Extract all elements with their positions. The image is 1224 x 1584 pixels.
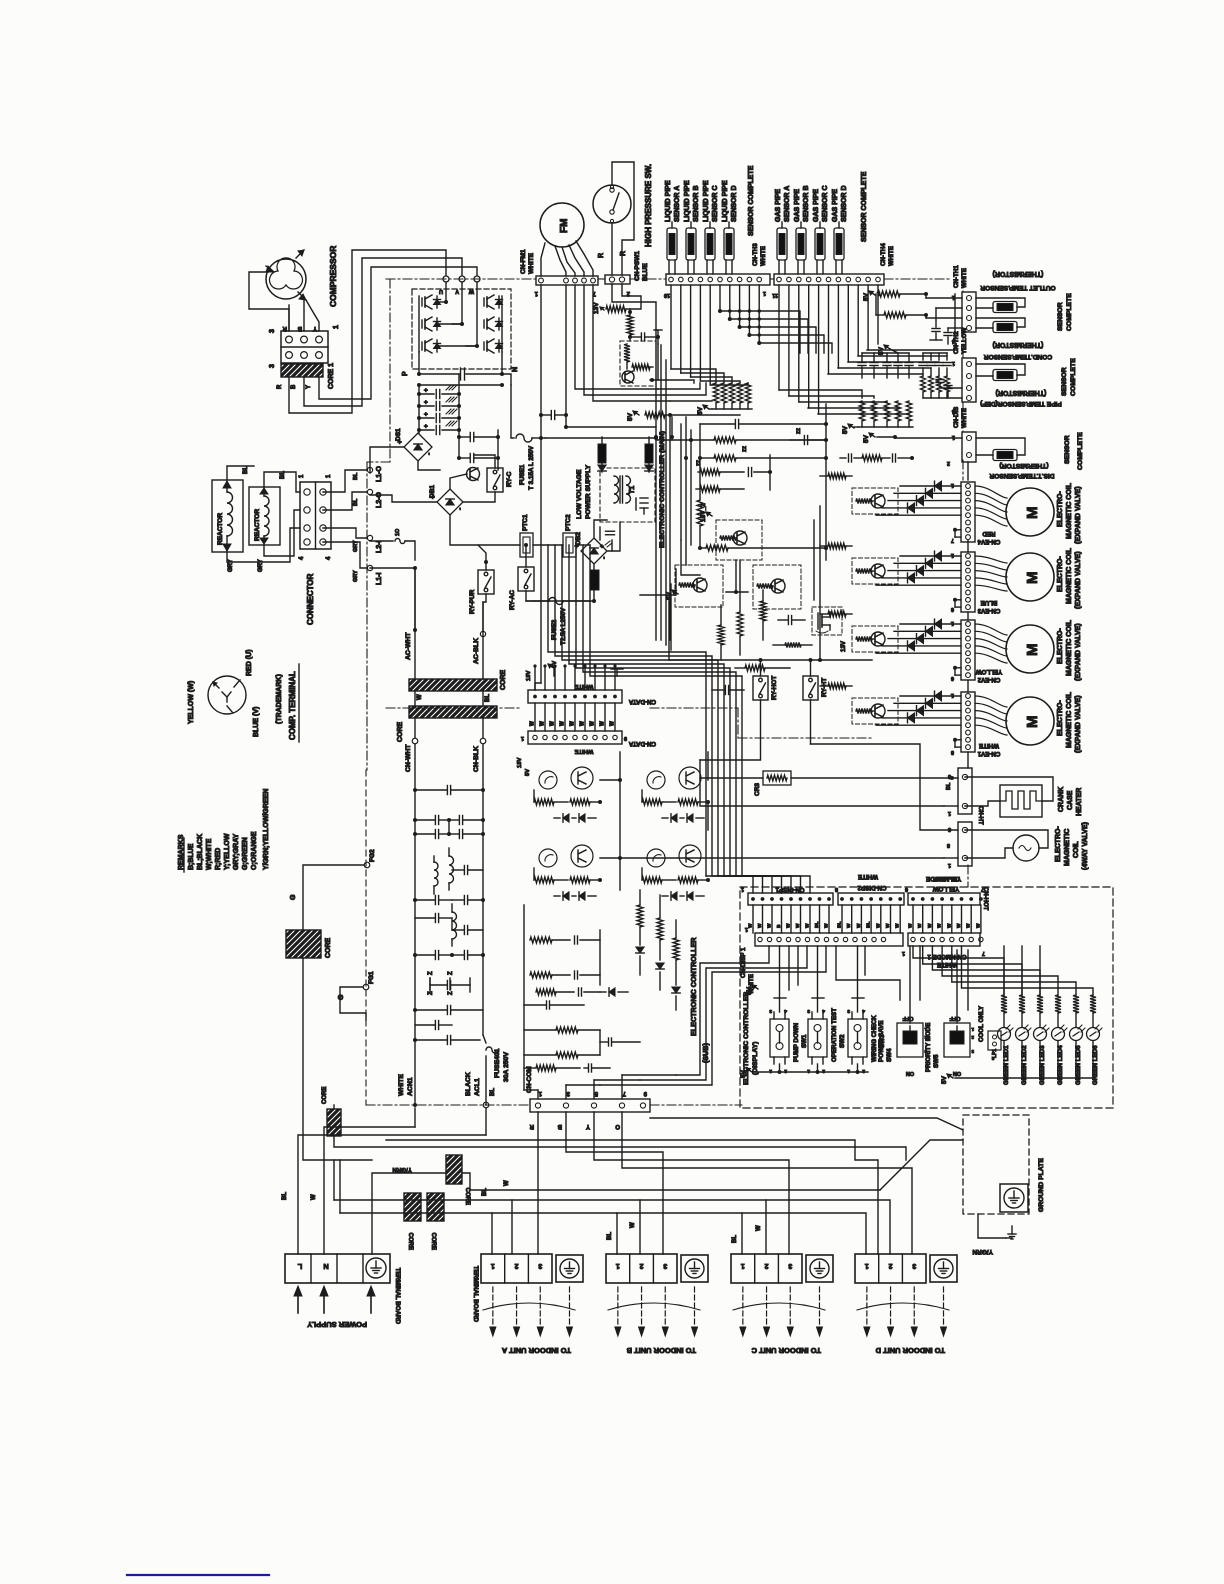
svg-text:SENSOR: SENSOR (1064, 435, 1071, 464)
wire CN-HOT feed (811, 744, 959, 830)
wire L up (298, 1135, 486, 1254)
sub net resistors 2 (673, 938, 679, 960)
svg-text:CN-TH1: CN-TH1 (953, 265, 960, 288)
svg-text:W: W (570, 721, 576, 726)
wire B drop (566, 1112, 663, 1254)
svg-text:8: 8 (835, 886, 838, 892)
svg-text:15V_2: 15V_2 (700, 503, 707, 522)
svg-text:B: B (291, 384, 297, 389)
svg-text:3: 3 (269, 364, 276, 368)
resistor vert below cell1 (737, 612, 743, 636)
driver cell pair 2 (647, 771, 665, 789)
svg-text:CRANK: CRANK (1058, 787, 1065, 812)
wire BL bus A (340, 1213, 492, 1254)
svg-text:W: W (846, 923, 852, 928)
wire AC-BLK down (482, 602, 484, 679)
regulator parts (624, 344, 630, 362)
wires CN-EV1 to motor (975, 696, 1007, 707)
LED column GREEN LED1-6 (1003, 946, 1005, 995)
svg-text:N: N (323, 1262, 328, 1271)
svg-text:T2.5A L250V: T2.5A L250V (560, 607, 567, 645)
svg-text:(TRADEMARK): (TRADEMARK) (276, 674, 283, 724)
controller inner dashed boundary (365, 770, 367, 1105)
svg-text:GROUND PLATE: GROUND PLATE (1038, 1158, 1045, 1212)
svg-text:ELECTRONIC CONTROLLER (MAIN): ELECTRONIC CONTROLLER (MAIN) (659, 431, 666, 548)
wire RY-PUR bottom (483, 594, 486, 630)
signal bundle to display board (548, 545, 706, 876)
wire N up (324, 1127, 415, 1254)
svg-text:2: 2 (626, 290, 630, 296)
wire BL bus C (617, 1213, 742, 1254)
svg-text:1: 1 (952, 294, 955, 300)
svg-text:3: 3 (807, 1008, 810, 1014)
svg-text:Y: Y (306, 385, 312, 389)
wire CN-WHT down (414, 744, 416, 1105)
flyback diodes CN-EV4 (900, 485, 961, 487)
svg-text:W: W (786, 923, 792, 928)
svg-text:GREEN LED6: GREEN LED6 (1092, 1045, 1099, 1085)
wires between cores (414, 691, 416, 706)
bridge DB2 to T1 wires (594, 520, 607, 537)
svg-text:LIQUID PIPE: LIQUID PIPE (684, 180, 691, 222)
wires switch SW1 (779, 998, 781, 1012)
wire RY-HT up (810, 660, 812, 676)
node ACL1 (483, 1102, 489, 1108)
filter cap 5 (446, 1006, 448, 1015)
wires CN-FM1 pins down (565, 285, 567, 427)
svg-text:CORE: CORE (430, 1233, 436, 1250)
caps CN-TH1 (932, 328, 940, 330)
mesh junction dots (718, 309, 722, 313)
svg-text:W: W (946, 923, 952, 928)
svg-text:ACL1: ACL1 (474, 1078, 481, 1096)
svg-text:W: W (560, 721, 566, 726)
connector CONNECTOR (2x4) (300, 482, 331, 549)
svg-text:W: W (885, 923, 891, 928)
wire compressor leads to connector (288, 305, 290, 331)
wire sub to indoor bus 2 (386, 1140, 878, 1254)
svg-text:GRY: GRY (258, 559, 264, 572)
svg-text:CN-HT: CN-HT (977, 806, 983, 825)
svg-text:1: 1 (741, 886, 744, 892)
svg-text:1: 1 (865, 1262, 869, 1269)
svg-text:SENSOR C: SENSOR C (822, 185, 829, 222)
svg-text:1: 1 (491, 1262, 495, 1269)
driver cell pair 3 (539, 849, 557, 867)
svg-text:1: 1 (534, 290, 538, 296)
svg-text:WHITE: WHITE (398, 1074, 405, 1096)
svg-text:5V: 5V (878, 346, 885, 355)
svg-text:CN-EV1: CN-EV1 (977, 750, 1000, 757)
svg-text:L: L (297, 1262, 302, 1271)
svg-text:TO INDOOR UNIT D: TO INDOOR UNIT D (875, 1346, 945, 1355)
driver cell CN-EV4 (852, 488, 898, 514)
svg-text:5V: 5V (627, 412, 634, 421)
wires strip to switches (779, 946, 781, 998)
svg-text:WHITE: WHITE (979, 742, 999, 749)
svg-text:SENSOR: SENSOR (1057, 302, 1064, 331)
svg-text:1: 1 (769, 1068, 772, 1074)
connector CN-DATA lower (528, 731, 622, 744)
svg-text:ACN1: ACN1 (407, 1077, 414, 1096)
wires to EV driver cells (819, 506, 821, 660)
wire PSW pin2 loop (622, 284, 641, 309)
switch SW1 PUMP DOWN (770, 1019, 789, 1057)
connector CN-HT (958, 768, 972, 814)
svg-text:10: 10 (664, 292, 670, 298)
svg-text:GRY: GRY (353, 570, 359, 582)
wire reactor2 bottom (264, 510, 300, 556)
svg-text:TERMINAL BOARD: TERMINAL BOARD (394, 1268, 401, 1325)
svg-text:(THERMISTOR): (THERMISTOR) (993, 270, 1044, 277)
wires SW4 SW5 (909, 946, 911, 1023)
svg-text:6: 6 (951, 606, 954, 612)
svg-text:WHITE: WHITE (528, 252, 535, 274)
jumper pins CN-EV2 (954, 668, 956, 675)
svg-text:13V: 13V (593, 302, 600, 314)
svg-text:W: W (580, 721, 586, 726)
svg-text:2: 2 (640, 1262, 644, 1269)
svg-text:SENSOR C: SENSOR C (712, 185, 719, 222)
svg-text:TO INDOOR UNIT C: TO INDOOR UNIT C (751, 1346, 821, 1355)
svg-text:DB1: DB1 (429, 485, 436, 498)
svg-text:WHITE: WHITE (858, 873, 878, 880)
svg-text:3: 3 (912, 1262, 916, 1269)
sub cell bus (600, 779, 620, 781)
MOSFET symbol (817, 613, 819, 629)
svg-text:CORE: CORE (397, 721, 404, 742)
wire DB1 bottom down (450, 515, 520, 545)
motor M (CN-EV2 expand valve) (1006, 625, 1054, 673)
resistor (black) 1 (598, 444, 606, 463)
svg-text:COMPLETE: COMPLETE (1070, 358, 1077, 396)
wire W bus C (640, 1200, 766, 1254)
svg-text:M: M (1024, 572, 1041, 585)
svg-text:5V: 5V (941, 1075, 948, 1084)
svg-text:11: 11 (772, 292, 778, 298)
svg-text:L1-O: L1-O (376, 466, 383, 483)
wire connector to L2-I (323, 528, 367, 538)
svg-text:1: 1 (616, 1262, 620, 1269)
svg-text:HEATER: HEATER (1076, 788, 1083, 816)
svg-text:BL: BL (490, 1088, 496, 1096)
svg-text:W: W (908, 923, 914, 928)
node V terminal (459, 276, 465, 282)
resistor below DB2 (590, 570, 599, 590)
svg-text:W: W (540, 721, 546, 726)
svg-text:WHITE: WHITE (961, 268, 968, 288)
node CN-WHT (414, 718, 416, 738)
svg-text:PUMP DOWN: PUMP DOWN (793, 1022, 800, 1062)
svg-text:YELLOW (W): YELLOW (W) (188, 681, 195, 724)
svg-text:L2-I: L2-I (376, 541, 383, 554)
svg-text:RY-HOT: RY-HOT (771, 676, 778, 700)
svg-text:ELECTRO-: ELECTRO- (1057, 491, 1064, 527)
wire R to inverter U (289, 250, 446, 413)
wire L2-O to DB1 (370, 495, 437, 502)
svg-text:3: 3 (663, 1262, 667, 1269)
svg-text:SENSOR B: SENSOR B (693, 185, 700, 222)
svg-text:CN-DATA: CN-DATA (628, 740, 656, 747)
svg-text:W: W (757, 923, 763, 928)
connector CN-DISP 1 (lower) (755, 933, 903, 946)
wires CN-DATA pins up to bundle (534, 666, 536, 690)
ground plate dashed box (963, 1115, 1029, 1214)
svg-text:ELECTRONIC CONTROLLER: ELECTRONIC CONTROLLER (689, 937, 698, 1036)
bus staircase to ladder (671, 369, 716, 383)
svg-text:LOW VOLTAGE: LOW VOLTAGE (576, 469, 583, 519)
svg-text:PTC2: PTC2 (565, 514, 572, 531)
transistor cell dashed 2 (675, 565, 723, 607)
bus wires display to CN-COM (676, 946, 769, 1075)
svg-text:ELECTRO-: ELECTRO- (1057, 556, 1064, 592)
svg-text:W: W (937, 923, 943, 928)
svg-text:1: 1 (948, 862, 951, 868)
connector CN-TH4 (774, 274, 884, 285)
resistor (black) 2 (645, 444, 653, 463)
board boundary right edge (962, 279, 964, 292)
wire ground plate down (978, 1214, 1006, 1238)
driver cell pair 4 (647, 849, 665, 867)
svg-text:R;RED: R;RED (215, 848, 222, 870)
dashed arrows unit C (742, 1287, 744, 1331)
connector CN-EV4 (961, 482, 975, 542)
electrolytic capacitor bank (4x) (418, 385, 420, 433)
svg-text:HIGH PRESSURE SW.: HIGH PRESSURE SW. (644, 164, 653, 247)
wire BL bus B (492, 1213, 617, 1254)
connector CN-DISP1 (748, 893, 833, 905)
svg-text:1O: 1O (395, 528, 401, 536)
wire through core (333, 1105, 335, 1109)
svg-text:YELLOW: YELLOW (976, 668, 1003, 675)
inverter module dashed box (412, 289, 511, 369)
fan motor FM (540, 203, 584, 247)
wire CN-HOT feed2 (620, 857, 944, 859)
node CN-BLK (482, 718, 484, 738)
svg-text:ELECTRO-: ELECTRO- (1057, 700, 1064, 736)
wire Y drop (594, 1112, 789, 1254)
svg-text:R: R (529, 1123, 534, 1129)
wires CN-TH3 to bus (719, 285, 721, 311)
switch SW4 POWER SAVE (897, 1023, 923, 1057)
svg-text:G: G (290, 894, 297, 900)
capacitor across P-N (460, 368, 462, 380)
svg-text:9: 9 (624, 735, 627, 741)
svg-text:P: P (402, 371, 409, 376)
svg-text:13V: 13V (526, 671, 532, 681)
caps near T1 (606, 530, 615, 532)
svg-text:GAS PIPE: GAS PIPE (813, 189, 820, 222)
svg-text:GREEN LED2: GREEN LED2 (1021, 1045, 1028, 1085)
svg-text:1: 1 (299, 474, 305, 478)
svg-text:REACTOR: REACTOR (217, 513, 224, 545)
svg-text:2: 2 (765, 1262, 769, 1269)
wires between CN-DATA connectors (534, 703, 536, 731)
node W terminal (474, 276, 480, 282)
5V wire CN-DIS (869, 433, 875, 437)
filter choke 1 (449, 856, 454, 883)
connector CN-TH2 (962, 358, 976, 402)
main board bottom dash-dot (386, 707, 520, 709)
switch SW2 OPERATION TEST (808, 1019, 827, 1057)
wires CN-DISP lower fanout (788, 946, 790, 990)
ground terminal unit C (806, 1255, 833, 1282)
MOSFET dashed box (812, 607, 842, 635)
filter extra caps column (463, 866, 465, 875)
wire N rail to fuse (511, 385, 514, 438)
svg-text:W: W (468, 288, 474, 294)
svg-text:2: 2 (822, 1068, 825, 1074)
connector CN-DATA upper (528, 690, 622, 703)
svg-text:W: W (875, 923, 881, 928)
wire connector to L2-O (323, 492, 367, 510)
thermistor cond temp (993, 370, 1017, 381)
svg-text:W: W (504, 1180, 510, 1186)
svg-text:5V: 5V (525, 769, 531, 776)
wire CN-FM1 pin1 down (540, 285, 542, 683)
svg-text:(THERMISTOR): (THERMISTOR) (996, 389, 1047, 396)
reactor 1 (212, 480, 243, 552)
svg-text:1: 1 (326, 474, 332, 478)
svg-text:COND.TEMP.SENSOR: COND.TEMP.SENSOR (984, 353, 1053, 360)
flyback diodes CN-EV2 (900, 623, 961, 625)
wire RY-HT down (810, 700, 812, 744)
wires between DISP strips (752, 905, 754, 933)
svg-text:WHITE: WHITE (888, 246, 895, 266)
5V pullups CN-TH1 (869, 291, 875, 295)
wire 1ohm (370, 540, 393, 542)
svg-text:4: 4 (822, 1008, 825, 1014)
svg-text:4: 4 (862, 1008, 865, 1014)
filter caps 3 (434, 896, 436, 905)
svg-text:CN-NMODE: CN-NMODE (926, 875, 960, 882)
svg-text:CN-DISP1: CN-DISP1 (775, 886, 804, 893)
pull-down resistor ladder (CN-TH4) (859, 401, 865, 421)
controller mesh resistors (700, 469, 720, 475)
svg-text:BL: BL (607, 1232, 613, 1240)
Y/GRN ground bus (372, 1173, 446, 1254)
PTC1 (520, 533, 533, 557)
wire W bus A (334, 1200, 512, 1254)
wire reactor1 top (227, 466, 254, 481)
svg-text:B: B (776, 924, 782, 928)
wires UVW into module (445, 282, 447, 302)
svg-text:7: 7 (981, 886, 984, 892)
svg-text:R: R (598, 253, 605, 258)
svg-text:W: W (550, 721, 556, 726)
svg-text:LIQUID PIPE: LIQUID PIPE (703, 180, 710, 222)
compressor motor M (3-phase) (266, 259, 306, 299)
board boundary bottom edge (366, 1104, 530, 1106)
wire connector to L1-O (323, 470, 367, 492)
driver cell CN-EV2 (852, 626, 898, 652)
svg-text:B;BLUE: B;BLUE (188, 843, 195, 870)
svg-text:DS1: DS1 (395, 428, 402, 441)
svg-text:M: M (1024, 644, 1041, 657)
motor M (CN-EV4 expand valve) (1006, 488, 1054, 536)
wire W bus D (766, 1200, 890, 1254)
node L2-I (367, 535, 372, 540)
svg-text:CN-FM1: CN-FM1 (520, 249, 527, 274)
svg-text:TO INDOOR UNIT A: TO INDOOR UNIT A (501, 1346, 571, 1355)
svg-text:5V: 5V (863, 434, 870, 443)
terminal board TO INDOOR UNIT A (481, 1254, 552, 1283)
svg-text:DIS.T.TEMP.SENSOR: DIS.T.TEMP.SENSOR (989, 472, 1054, 479)
dashed arrows unit D (866, 1287, 868, 1331)
svg-text:1: 1 (951, 620, 954, 626)
terminal board TO INDOOR UNIT B (606, 1254, 677, 1283)
svg-text:W: W (856, 923, 862, 928)
svg-text:3: 3 (971, 1049, 974, 1054)
svg-text:W: W (756, 1225, 762, 1231)
relay RY-HT (803, 676, 818, 700)
svg-text:WHITE: WHITE (575, 683, 594, 689)
ground plate terminal (1000, 1184, 1028, 1212)
wire sub to indoor bus 1 (650, 1118, 963, 1130)
wires CN-EV2 to motor (975, 624, 1007, 635)
bridge DS1 (404, 433, 432, 461)
svg-text:1: 1 (521, 735, 524, 741)
wire W bus B (512, 1200, 640, 1254)
svg-text:COMPLETE: COMPLETE (1066, 293, 1073, 331)
svg-text:Y/GRN;YELLOW/GREEN: Y/GRN;YELLOW/GREEN (263, 789, 270, 870)
node ACN1 (413, 1103, 417, 1107)
svg-text:CN-TH2: CN-TH2 (953, 331, 960, 354)
ground symbol (1011, 1226, 1013, 1234)
controller mesh wires (640, 569, 676, 595)
svg-text:(THERMISTOR): (THERMISTOR) (999, 462, 1048, 469)
node L1-I (367, 565, 372, 570)
board boundary left edge (389, 279, 391, 462)
ground terminal unit A (556, 1255, 583, 1282)
svg-text:YELLOW: YELLOW (933, 885, 960, 892)
RC network below CN-DIS (840, 457, 846, 459)
svg-text:7: 7 (951, 537, 954, 543)
svg-text:2: 2 (971, 1035, 974, 1040)
svg-text:YELLOW: YELLOW (961, 327, 968, 354)
svg-text:WHITE: WHITE (961, 408, 968, 428)
svg-text:ON: ON (906, 1070, 914, 1076)
svg-text:BL: BL (243, 466, 249, 474)
svg-text:W: W (895, 923, 901, 928)
svg-text:M: M (1024, 507, 1041, 520)
svg-text:CN-PSW1: CN-PSW1 (634, 251, 641, 281)
svg-text:2: 2 (889, 1262, 893, 1269)
svg-text:O;ORANGE: O;ORANGE (251, 831, 258, 870)
wire FG1 left (340, 987, 366, 1020)
svg-text:(DISPLAY): (DISPLAY) (752, 1042, 759, 1075)
svg-text:W: W (927, 923, 933, 928)
15V_2 label (706, 512, 712, 516)
svg-text:3: 3 (788, 1262, 792, 1269)
svg-text:W: W (966, 923, 972, 928)
svg-text:CN-WHT: CN-WHT (405, 744, 412, 772)
svg-text:CONNECTOR: CONNECTOR (306, 573, 315, 625)
wires CN-TH4 down (778, 285, 780, 390)
wire FG2 to core (303, 865, 364, 930)
svg-text:5V: 5V (697, 406, 704, 415)
svg-text:ELECTRO-: ELECTRO- (1057, 628, 1064, 664)
svg-text:CN-TH3: CN-TH3 (752, 243, 759, 266)
label 5V + resistor (633, 411, 639, 415)
svg-text:1: 1 (952, 360, 955, 366)
svg-text:T1: T1 (629, 486, 636, 494)
connector CN-COM (530, 1099, 650, 1112)
svg-text:BLACK: BLACK (465, 1072, 472, 1096)
svg-text:MAGNETIC COIL: MAGNETIC COIL (1066, 482, 1073, 539)
5V arrow disp (752, 985, 758, 989)
svg-text:RY-AC: RY-AC (509, 590, 516, 610)
